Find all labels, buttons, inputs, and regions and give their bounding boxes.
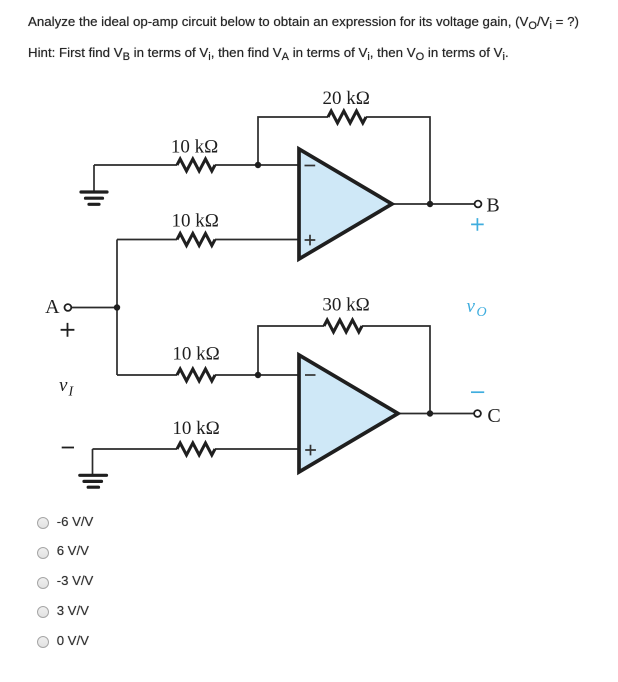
- svg-text:10 kΩ: 10 kΩ: [171, 136, 218, 157]
- svg-text:30 kΩ: 30 kΩ: [322, 295, 369, 316]
- svg-text:A: A: [45, 296, 60, 318]
- svg-text:20 kΩ: 20 kΩ: [323, 88, 370, 109]
- svg-text:v: v: [59, 375, 68, 396]
- svg-text:10 kΩ: 10 kΩ: [172, 418, 219, 439]
- svg-text:10 kΩ: 10 kΩ: [172, 344, 219, 365]
- svg-text:C: C: [487, 405, 500, 427]
- svg-text:v: v: [467, 296, 476, 317]
- svg-text:I: I: [68, 385, 75, 400]
- svg-text:B: B: [486, 195, 499, 217]
- svg-text:O: O: [477, 305, 487, 320]
- svg-text:10 kΩ: 10 kΩ: [172, 210, 219, 231]
